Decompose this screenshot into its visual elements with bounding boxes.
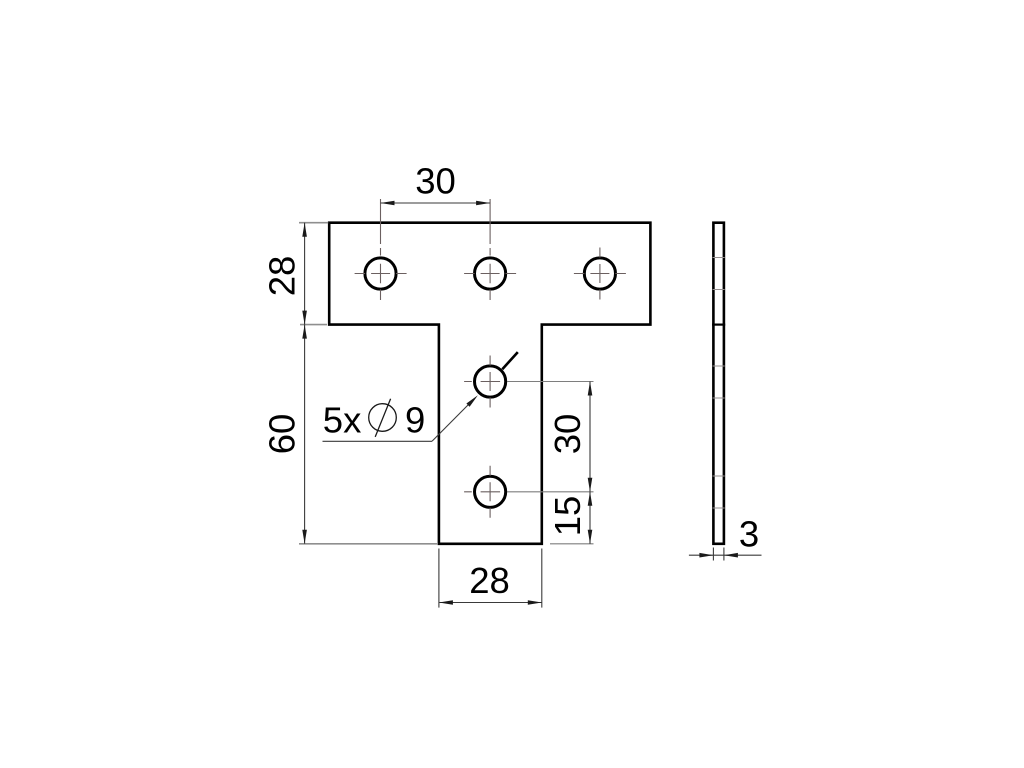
leader far segment: [502, 352, 518, 369]
front view T-plate outline: [329, 223, 650, 544]
hole note 5x dia 9: [323, 395, 478, 441]
dimension 28 left: [262, 223, 329, 325]
side view hole hidden lines: [713, 258, 725, 509]
svg-text:28: 28: [262, 256, 303, 297]
dimension 30 right: [507, 382, 594, 492]
dimension 60 left: [262, 325, 438, 544]
hole H5: [475, 476, 506, 507]
centerline H4: [464, 356, 500, 408]
svg-text:3: 3: [739, 514, 759, 555]
svg-text:28: 28: [469, 560, 510, 601]
centerline H2: [464, 199, 516, 300]
dimension 30 top: [381, 161, 491, 206]
dimension 28 bottom: [439, 549, 542, 608]
svg-text:60: 60: [262, 414, 303, 455]
hole H4: [475, 366, 506, 397]
centerline H1: [355, 199, 407, 300]
centerline H5: [464, 466, 500, 518]
hole H3: [584, 258, 615, 289]
side view bar-bottom edge: [712, 324, 725, 326]
dimension 15 right: [547, 492, 594, 544]
centerline H3: [574, 248, 626, 300]
side view plate: [713, 223, 724, 544]
svg-text:15: 15: [547, 496, 588, 537]
hole H1: [365, 258, 396, 289]
svg-text:9: 9: [405, 400, 425, 441]
hole H2: [475, 258, 506, 289]
dimension 3 side: [689, 514, 762, 561]
svg-text:30: 30: [415, 161, 456, 202]
svg-text:5x: 5x: [323, 400, 362, 441]
svg-text:30: 30: [547, 414, 588, 455]
